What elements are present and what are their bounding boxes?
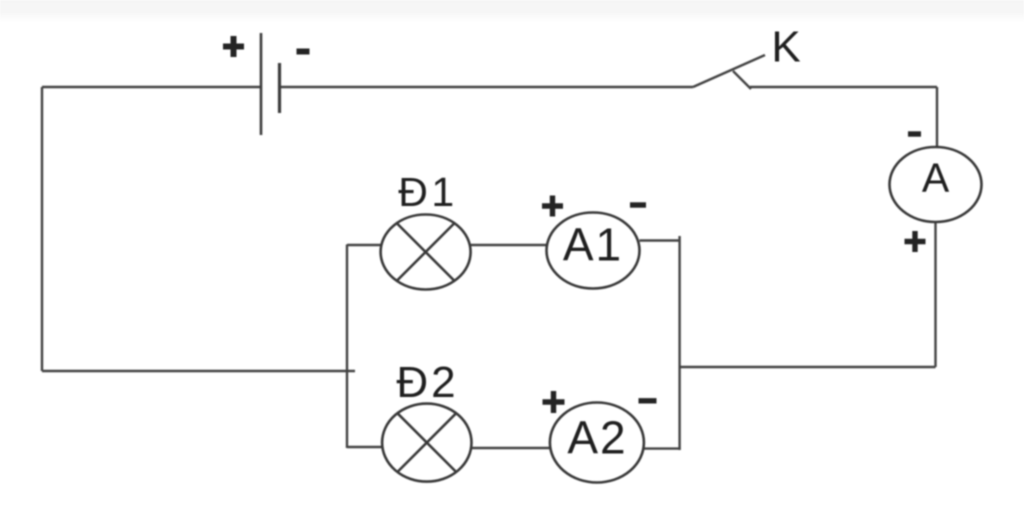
svg-text:K: K bbox=[771, 23, 800, 72]
svg-text:Đ1: Đ1 bbox=[398, 169, 457, 215]
svg-text:A: A bbox=[922, 155, 950, 201]
svg-text:A2: A2 bbox=[567, 412, 627, 464]
svg-text:A1: A1 bbox=[563, 219, 623, 271]
svg-text:Đ2: Đ2 bbox=[396, 358, 458, 407]
